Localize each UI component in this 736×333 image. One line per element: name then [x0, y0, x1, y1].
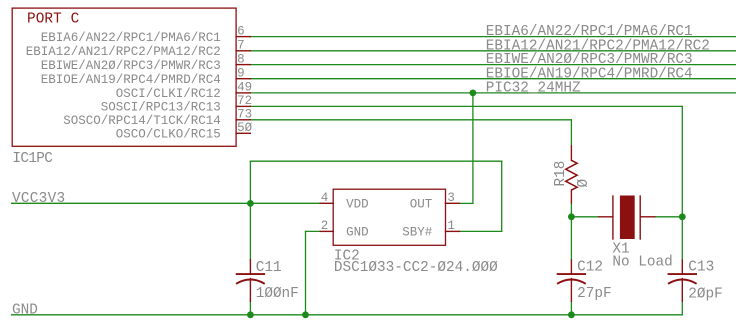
svg-text:No Load: No Load	[612, 254, 672, 270]
svg-text:EBIA6/AN22/RPC1/PMA6/RC1: EBIA6/AN22/RPC1/PMA6/RC1	[41, 31, 221, 45]
svg-text:7: 7	[237, 39, 245, 53]
svg-text:PORT C: PORT C	[27, 12, 79, 28]
svg-text:5Ø: 5Ø	[237, 121, 252, 135]
svg-text:9: 9	[237, 67, 245, 81]
svg-text:GND: GND	[346, 226, 369, 240]
svg-text:R18: R18	[553, 161, 569, 187]
svg-text:SOSCI/RPC13/RC13: SOSCI/RPC13/RC13	[101, 101, 221, 115]
svg-text:4: 4	[321, 191, 329, 205]
svg-text:Ø: Ø	[576, 179, 592, 188]
svg-text:SBY#: SBY#	[402, 226, 433, 240]
svg-text:49: 49	[237, 81, 252, 95]
svg-text:PIC32_24MHZ: PIC32_24MHZ	[486, 81, 581, 97]
svg-text:73: 73	[237, 108, 252, 122]
svg-text:C13: C13	[688, 259, 714, 275]
svg-text:C11: C11	[256, 260, 282, 276]
svg-text:27pF: 27pF	[577, 286, 612, 302]
svg-text:DSC1Ø33-CC2-Ø24.ØØØ: DSC1Ø33-CC2-Ø24.ØØØ	[334, 260, 498, 276]
svg-text:1: 1	[447, 219, 455, 233]
svg-text:3: 3	[447, 191, 455, 205]
svg-text:6: 6	[237, 24, 245, 38]
svg-text:VCC3V3: VCC3V3	[12, 191, 65, 207]
svg-text:C12: C12	[577, 259, 603, 275]
svg-text:1ØØnF: 1ØØnF	[256, 286, 299, 302]
svg-text:EBIOE/AN19/RPC4/PMRD/RC4: EBIOE/AN19/RPC4/PMRD/RC4	[41, 73, 221, 87]
svg-text:SOSCO/RPC14/T1CK/RC14: SOSCO/RPC14/T1CK/RC14	[63, 114, 220, 128]
svg-text:OSCI/CLKI/RC12: OSCI/CLKI/RC12	[116, 87, 221, 101]
svg-text:GND: GND	[12, 303, 38, 319]
svg-text:EBIWE/AN2Ø/RPC3/PMWR/RC3: EBIWE/AN2Ø/RPC3/PMWR/RC3	[41, 59, 221, 73]
svg-text:2ØpF: 2ØpF	[688, 287, 723, 303]
svg-text:IC1PC: IC1PC	[12, 151, 53, 167]
svg-text:OUT: OUT	[410, 198, 433, 212]
svg-text:EBIA12/AN21/RPC2/PMA12/RC2: EBIA12/AN21/RPC2/PMA12/RC2	[26, 45, 221, 59]
svg-text:72: 72	[237, 94, 252, 108]
svg-text:8: 8	[237, 52, 245, 66]
svg-text:VDD: VDD	[346, 198, 369, 212]
svg-text:OSCO/CLKO/RC15: OSCO/CLKO/RC15	[116, 128, 221, 142]
svg-text:2: 2	[321, 219, 329, 233]
